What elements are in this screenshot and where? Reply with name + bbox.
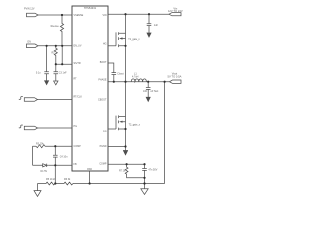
node dot [55, 45, 57, 47]
ground arrow (solid) below Q2 [124, 147, 128, 155]
svg-text:COMP: COMP [99, 162, 107, 165]
svg-text:RT: RT [74, 78, 78, 81]
svg-text:100: 100 [143, 90, 148, 93]
svg-text:HG: HG [103, 43, 107, 46]
wire row 165 [33, 164, 73, 166]
node dot [113, 81, 115, 83]
svg-text:FB: FB [74, 163, 77, 166]
svg-text:47n 50V: 47n 50V [148, 169, 157, 172]
svg-text:VSENSE: VSENSE [74, 14, 84, 17]
capacitor C3 branch x55.8 [54, 64, 59, 81]
svg-text:CBOOT: CBOOT [98, 99, 107, 102]
capacitor CIN x149 [147, 14, 152, 33]
node dot [148, 13, 150, 15]
mosfet Q1 gate wire [108, 45, 116, 47]
wire VIN row right side [108, 13, 169, 15]
wire P3 to IC [38, 99, 73, 101]
node dot [61, 14, 63, 16]
node dot [143, 177, 145, 179]
node dot [124, 81, 126, 83]
IC U1 body [72, 6, 108, 171]
svg-text:PG: PG [74, 125, 78, 128]
node dot [143, 182, 145, 184]
wire EN row [38, 45, 72, 47]
wire row 64 to IC [56, 63, 72, 65]
node dot [54, 182, 56, 184]
node dot [61, 63, 63, 65]
ground arrow (solid) x46.6 [45, 81, 49, 85]
svg-text:C3 1nF: C3 1nF [59, 71, 67, 74]
svg-text:C4 10n: C4 10n [60, 155, 68, 158]
mosfet Q1 [116, 32, 126, 47]
port tag P2 (EN) [27, 44, 39, 48]
svg-text:BOOT: BOOT [100, 61, 107, 64]
svg-text:LG: LG [103, 130, 106, 133]
svg-text:D1 5V: D1 5V [41, 170, 48, 173]
bottom feedback wire with resistors R5 R6 [38, 182, 165, 185]
boot pin wire and corner [108, 63, 116, 82]
mosfet Q1 body arrow [119, 37, 122, 39]
svg-text:PHASE: PHASE [98, 79, 107, 82]
wire P4 to IC [38, 127, 73, 129]
svg-text:Rsense: Rsense [51, 25, 60, 28]
left end corner to ground [37, 184, 39, 191]
svg-text:SS/TR: SS/TR [74, 62, 81, 65]
ground stem + triangle right bottom [144, 184, 146, 189]
ground triangle (open) left bottom [34, 191, 41, 197]
mosfet Q2 drain/source vertical [125, 82, 127, 147]
svg-text:EN_UV: EN_UV [74, 45, 82, 48]
node dot [61, 45, 63, 47]
svg-text:T2_gate_x: T2_gate_x [129, 123, 141, 126]
ground arrow (solid) CIN [147, 33, 151, 37]
corner down x32.5 [32, 146, 34, 165]
resistor R7 comp [125, 164, 144, 178]
node dot [126, 163, 128, 165]
svg-text:COMP: COMP [74, 145, 82, 148]
squiggle before P4 [19, 125, 23, 128]
svg-text:PGND: PGND [100, 145, 107, 148]
svg-text:PVIN 12V: PVIN 12V [24, 8, 35, 11]
svg-text:T1_gate_x: T1_gate_x [128, 38, 140, 41]
mosfet Q2 body arrow [119, 121, 122, 123]
port tag P4 (lower-left) [24, 126, 37, 130]
svg-text:1uF: 1uF [154, 24, 159, 27]
capacitor C7 comp x144.5 [142, 164, 147, 183]
svg-text:Cboot: Cboot [117, 72, 124, 75]
node dot [124, 13, 126, 15]
node dot [54, 164, 56, 166]
port tag P3 (mid-left) [24, 98, 37, 102]
ground triangle (open) x55.8 [54, 81, 58, 85]
node dot [164, 81, 166, 83]
svg-text:12V TO 24V: 12V TO 24V [168, 9, 183, 13]
port tag P6 (VOUT right) [170, 80, 182, 83]
mosfet Q2 gate wire [108, 128, 116, 130]
svg-text:RT/CLK: RT/CLK [74, 96, 83, 99]
node dot [89, 182, 91, 184]
port tag P1 (input, top-left) [27, 13, 39, 17]
svg-text:EN: EN [28, 40, 32, 43]
wire COMP row with resistor R3 [33, 145, 73, 148]
svg-text:TPS54331: TPS54331 [84, 6, 97, 10]
node dot [46, 45, 48, 47]
diode D1 [43, 164, 49, 167]
node dot [124, 145, 126, 147]
svg-text:VIN: VIN [103, 14, 107, 17]
inductor L1 [131, 79, 146, 82]
capacitor C2 branch x46.6 [44, 46, 49, 81]
svg-text:R3 10k: R3 10k [36, 142, 44, 145]
svg-text:uF Tant: uF Tant [150, 90, 158, 93]
node dot [124, 128, 126, 130]
svg-text:0.1u: 0.1u [36, 71, 41, 74]
ground arrow (solid) COUT [146, 97, 150, 101]
LX output wire [108, 81, 170, 83]
svg-text:R5 10.2k: R5 10.2k [46, 178, 56, 181]
svg-text:PAD: PAD [87, 168, 92, 171]
node dot [143, 163, 145, 165]
mosfet Q2 [116, 115, 126, 130]
mosfet Q1 drain/source vertical [125, 14, 127, 82]
svg-text:R7 1k: R7 1k [119, 169, 126, 172]
svg-text:R6 3k: R6 3k [64, 178, 71, 181]
resistor RSENSE [60, 15, 63, 46]
svg-text:4.7uH: 4.7uH [132, 76, 139, 79]
svg-text:5V TO 0.5A: 5V TO 0.5A [168, 75, 182, 79]
capacitor C4 x55.3 [53, 146, 58, 183]
port tag P5 (VIN right) [169, 13, 181, 16]
node dot [124, 45, 126, 47]
wire PGND row [108, 146, 126, 148]
capacitor COUT x148.2 [146, 82, 151, 98]
squiggle before P3 [19, 97, 23, 100]
IC bottom pad pin wire [89, 171, 91, 184]
node dot [55, 63, 57, 65]
wire COMP right row [108, 163, 145, 165]
node dot [54, 145, 56, 147]
node dot [147, 81, 149, 83]
long vertical feedback return x164.6 [164, 82, 166, 184]
resistor R2 [54, 46, 57, 64]
wire vertical x62 EN to row64 [61, 46, 63, 64]
wire VIN top-left to VSENSE pin [38, 14, 72, 16]
